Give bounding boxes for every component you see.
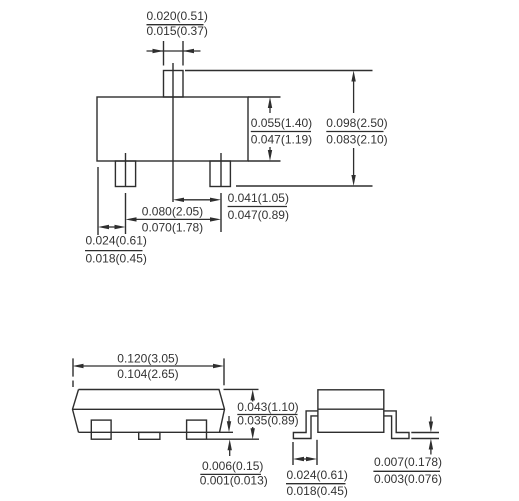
- top tab (lead 4 stub, front view): [164, 71, 184, 98]
- svg-text:0.070(1.78): 0.070(1.78): [142, 221, 203, 235]
- svg-text:0.020(0.51): 0.020(0.51): [147, 9, 208, 23]
- svg-text:0.041(1.05): 0.041(1.05): [228, 191, 289, 205]
- center line: [172, 63, 174, 202]
- extension line foot outer edge down: [292, 442, 294, 465]
- svg-text:0.001(0.013): 0.001(0.013): [200, 474, 268, 488]
- dimension text 0.055(1.40)/0.047(1.19): [251, 116, 312, 146]
- svg-text:0.080(2.05): 0.080(2.05): [142, 204, 203, 218]
- svg-text:0.007(0.178): 0.007(0.178): [374, 455, 442, 469]
- svg-text:0.003(0.076): 0.003(0.076): [374, 472, 442, 486]
- svg-text:0.035(0.89): 0.035(0.89): [237, 414, 298, 428]
- extension line body edge down: [316, 440, 318, 465]
- svg-text:0.120(3.05): 0.120(3.05): [117, 352, 178, 366]
- extension line top edge right: [224, 388, 259, 390]
- extension line right vertex up: [223, 358, 225, 385]
- lead 1 pad (side view): [91, 420, 111, 439]
- extension line lead1 center: [125, 153, 127, 234]
- lead 2 pad (side view): [139, 432, 160, 439]
- dimension text 0.007(0.178)/0.003(0.076): [373, 455, 442, 486]
- package body (side view): [73, 390, 225, 433]
- svg-text:0.024(0.61): 0.024(0.61): [287, 468, 348, 482]
- extension line foot bottom right: [411, 438, 439, 440]
- package body (end view): [318, 390, 384, 433]
- svg-text:0.006(0.15): 0.006(0.15): [202, 459, 263, 473]
- extension line body top right: [248, 96, 281, 98]
- svg-text:0.018(0.45): 0.018(0.45): [86, 252, 147, 266]
- extension line from leg bottoms: [236, 185, 373, 187]
- svg-text:0.104(2.65): 0.104(2.65): [117, 367, 178, 381]
- extension line foot top right: [411, 432, 439, 434]
- dimension text 0.020(0.51)/0.015(0.37): [147, 9, 208, 38]
- extension line from tab top: [185, 70, 373, 72]
- dimension 0.043/0.035 arrows: [252, 398, 254, 402]
- parting line (end view): [318, 408, 384, 410]
- dimension 0.055/0.047 arrows: [269, 107, 271, 113]
- dimension 0.020/0.015 arrows: [147, 50, 201, 52]
- svg-text:0.015(0.37): 0.015(0.37): [147, 24, 208, 38]
- dimension 0.024/0.018 line (front view): [106, 226, 117, 228]
- svg-text:0.024(0.61): 0.024(0.61): [86, 233, 147, 247]
- extension line body bottom right: [248, 160, 281, 162]
- dimension text 0.024(0.61)/0.018(0.45) (front view): [85, 233, 147, 265]
- gull-wing lead right (end view): [384, 411, 409, 439]
- dimension 0.120/0.104 line: [81, 365, 215, 367]
- extension line lead3 center: [220, 153, 222, 232]
- dimension text 0.024(0.61)/0.018(0.45) (end view): [286, 468, 348, 498]
- dimension 0.024/0.018 line (end view): [301, 458, 309, 460]
- lead 1 (front view left leg): [115, 161, 135, 187]
- body bottom edge + extension: [79, 431, 234, 433]
- extension line tab left: [163, 41, 165, 66]
- svg-text:0.083(2.10): 0.083(2.10): [326, 132, 387, 146]
- dimension 0.041/0.047 line: [182, 199, 212, 201]
- svg-text:0.098(2.50): 0.098(2.50): [326, 116, 387, 130]
- seating plane extension line: [207, 438, 259, 440]
- dimension text 0.006(0.15)/0.001(0.013): [200, 459, 268, 488]
- dimension 0.006/0.001 arrows: [228, 416, 230, 422]
- svg-text:0.047(0.89): 0.047(0.89): [228, 208, 289, 222]
- dimension 0.098/0.083 arrows: [353, 80, 355, 113]
- dimension 0.007/0.003 arrows: [430, 417, 432, 423]
- extension line tab right: [182, 41, 184, 66]
- extension line body left edge down: [97, 167, 99, 235]
- parting line (side view): [73, 408, 225, 410]
- dimension 0.080/0.070 line: [134, 218, 212, 220]
- dimension text 0.098(2.50)/0.083(2.10): [326, 116, 387, 146]
- dimension text 0.041(1.05)/0.047(0.89): [228, 191, 289, 222]
- lead 3 pad (side view): [187, 420, 207, 439]
- svg-text:0.018(0.45): 0.018(0.45): [287, 484, 348, 498]
- lead 3 (front view right leg): [210, 161, 230, 187]
- dimension text 0.043(1.10)/0.035(0.89): [237, 400, 298, 428]
- svg-text:0.047(1.19): 0.047(1.19): [251, 132, 312, 146]
- gull-wing lead left (end view): [293, 411, 318, 439]
- svg-text:0.043(1.10): 0.043(1.10): [237, 400, 298, 414]
- package body (front view): [97, 97, 248, 161]
- svg-text:0.055(1.40): 0.055(1.40): [251, 116, 312, 130]
- extension line left vertex up: [72, 358, 74, 387]
